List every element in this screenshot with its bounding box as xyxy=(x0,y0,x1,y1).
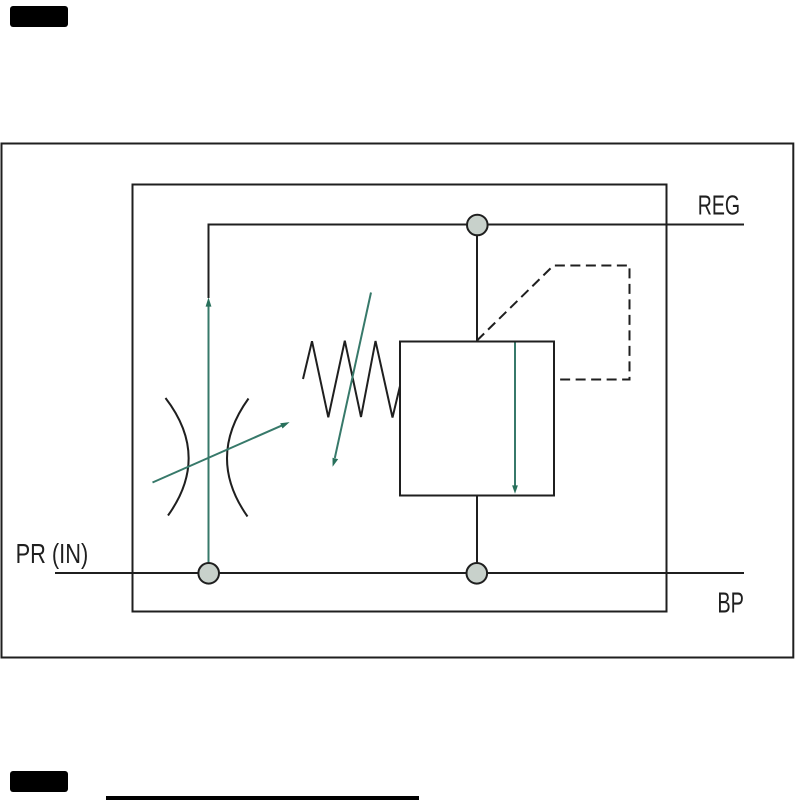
wire left branch down xyxy=(208,224,210,299)
label BP xyxy=(717,588,744,619)
outer border frame xyxy=(2,144,794,658)
spring xyxy=(303,341,400,418)
svg-text:PR (IN): PR (IN) xyxy=(16,540,89,570)
label PR (IN) xyxy=(16,540,89,570)
watermark hole top-left xyxy=(10,6,68,27)
throttle valve arcs xyxy=(166,398,189,516)
node REG junction xyxy=(467,215,488,236)
adjustability arrow through throttle xyxy=(153,422,290,482)
wire REG line xyxy=(209,224,745,226)
flow arrow down inside valve box xyxy=(512,343,518,494)
wire valve box bottom to node xyxy=(476,496,478,574)
inner enclosure (component boundary) xyxy=(133,185,667,612)
svg-text:BP: BP xyxy=(717,588,744,619)
watermark hole bottom strip xyxy=(106,796,419,800)
svg-text:REG: REG xyxy=(698,190,740,221)
wire PR-BP line xyxy=(55,572,744,574)
flow arrow up (left branch) xyxy=(206,297,212,563)
valve box xyxy=(400,342,554,496)
node BP junction xyxy=(467,563,488,584)
pilot line dashed path xyxy=(477,266,630,380)
label REG xyxy=(698,190,740,221)
node PR junction xyxy=(198,563,219,584)
wire node to valve box top xyxy=(476,225,478,342)
watermark hole bottom-left xyxy=(10,771,68,792)
adjustability arrow through spring xyxy=(333,293,372,467)
